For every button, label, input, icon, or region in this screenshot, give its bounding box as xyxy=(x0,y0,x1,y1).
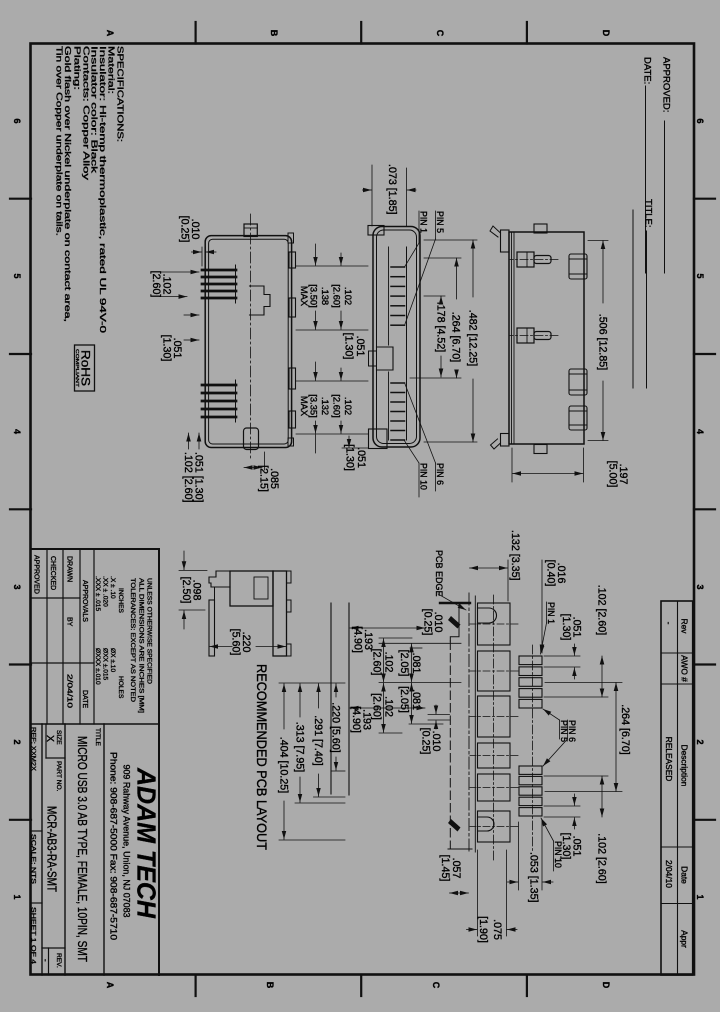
svg-text:PIN 10: PIN 10 xyxy=(419,463,429,490)
svg-text:[0.25]: [0.25] xyxy=(420,728,432,755)
break mark 1 xyxy=(448,616,461,629)
dim .102 [2.60] left xyxy=(544,656,608,697)
svg-text:.220 [5.60]: .220 [5.60] xyxy=(330,702,342,753)
svg-text:[1.30]: [1.30] xyxy=(343,333,355,360)
svg-text:HOLES: HOLES xyxy=(117,676,124,699)
svg-text:TITLE:: TITLE: xyxy=(643,199,654,228)
svg-text:ØXX ±.015: ØXX ±.015 xyxy=(102,648,109,681)
svg-text:APPROVED: APPROVED xyxy=(33,555,40,594)
svg-text:CHECKED: CHECKED xyxy=(49,556,56,590)
side view top tabs xyxy=(287,571,292,583)
dim .220 [5.60] vertical xyxy=(210,646,287,648)
approvals table text xyxy=(33,555,89,708)
svg-text:Description: Description xyxy=(680,745,690,787)
svg-text:2: 2 xyxy=(12,739,22,744)
break mark 2 xyxy=(448,819,461,832)
svg-text:.506 [12.85]: .506 [12.85] xyxy=(597,314,609,370)
svg-text:Plating:: Plating: xyxy=(73,46,82,90)
top view left post xyxy=(244,224,257,237)
svg-text:-: - xyxy=(664,622,674,625)
top view body xyxy=(205,224,295,450)
dim .193 [4.90] left xyxy=(350,627,425,629)
dim .075 [1.90] xyxy=(467,850,518,936)
svg-text:ADAM TECH: ADAM TECH xyxy=(132,767,162,919)
svg-text:Gold flash over Nickel underpl: Gold flash over Nickel underplate on con… xyxy=(63,46,72,322)
svg-text:[4.90]: [4.90] xyxy=(350,706,362,733)
svg-text:.102: .102 xyxy=(343,287,354,305)
svg-text:[1.30]: [1.30] xyxy=(161,335,173,362)
zone ticks bottom edge xyxy=(10,199,31,820)
revision table xyxy=(661,601,693,975)
svg-text:.102: .102 xyxy=(383,652,395,673)
bottom view right leg xyxy=(501,434,510,447)
dim .197 [5.00] xyxy=(512,448,584,482)
dim .081 [2.05] 2 xyxy=(411,683,413,723)
dim .220 [5.60] row xyxy=(335,684,337,771)
svg-text:MAX: MAX xyxy=(299,396,310,417)
svg-text:D: D xyxy=(601,30,611,37)
svg-text:.051: .051 xyxy=(354,336,366,357)
svg-text:4: 4 xyxy=(695,429,705,434)
svg-text:REF: XXM2X: REF: XXM2X xyxy=(30,727,37,772)
bottom view left leg xyxy=(501,230,510,252)
top view corner hooks xyxy=(288,233,294,243)
svg-text:Phone: 908-687-5000 Fax: 908-6: Phone: 908-687-5000 Fax: 908-687-5710 xyxy=(109,752,119,940)
dim .081 [2.05] pair extension lines xyxy=(379,638,461,733)
svg-text:[0.25]: [0.25] xyxy=(179,216,191,243)
svg-text:PCB EDGE: PCB EDGE xyxy=(434,550,444,597)
svg-text:BY: BY xyxy=(66,617,73,627)
svg-text:6: 6 xyxy=(12,118,22,123)
top view center notch xyxy=(250,286,271,315)
revision table headers xyxy=(680,619,690,949)
svg-text:6: 6 xyxy=(695,118,705,123)
dim stack .102 .138 below front view group1 xyxy=(299,284,354,307)
svg-text:Rev: Rev xyxy=(680,619,690,635)
pcb cut line dashed xyxy=(449,641,451,849)
svg-text:.051: .051 xyxy=(355,447,367,468)
zone ticks left edge xyxy=(196,22,527,44)
specifications notes xyxy=(54,46,124,334)
pcb edge left end xyxy=(440,602,470,604)
dim .102 [2.60] stack 1 xyxy=(383,639,385,682)
svg-text:SHEET 1 OF 4: SHEET 1 OF 4 xyxy=(30,907,37,964)
svg-text:[0.40]: [0.40] xyxy=(545,560,557,587)
svg-text:C: C xyxy=(431,982,441,989)
svg-text:[1.90]: [1.90] xyxy=(477,916,489,943)
svg-text:APPROVALS: APPROVALS xyxy=(81,580,88,622)
pin pads group 2 xyxy=(519,766,542,816)
svg-text:SCALE: NTS: SCALE: NTS xyxy=(30,834,37,885)
svg-text:ØXXX ±.010: ØXXX ±.010 xyxy=(94,648,101,685)
svg-text:.XXX ± .015: .XXX ± .015 xyxy=(94,576,101,611)
title underline 2 xyxy=(632,210,634,388)
approved underline xyxy=(664,121,666,273)
svg-text:.132 [3.35]: .132 [3.35] xyxy=(509,530,521,581)
dim .506 [12.85] xyxy=(588,241,608,441)
svg-text:.313 [7.95]: .313 [7.95] xyxy=(294,722,306,773)
svg-text:.482 [12.25]: .482 [12.25] xyxy=(467,310,479,366)
zone ticks top edge xyxy=(694,199,715,820)
bottom view shield tabs xyxy=(569,254,587,279)
svg-text:.138: .138 xyxy=(320,287,331,305)
svg-text:[0.25]: [0.25] xyxy=(422,609,434,636)
top view contact comb 2 xyxy=(202,385,236,417)
stack right extensions xyxy=(279,771,345,840)
front view left leg xyxy=(368,226,384,236)
stack dims common extension xyxy=(279,682,345,684)
svg-text:[2.15]: [2.15] xyxy=(258,465,270,492)
zone ticks right edge xyxy=(196,975,527,996)
svg-text:.073 [1.85]: .073 [1.85] xyxy=(386,164,398,215)
dim .010 [0.25] xyxy=(192,247,217,266)
shield pad vertical centerlines xyxy=(470,624,518,827)
footprint rear lines xyxy=(348,603,350,795)
svg-text:PIN 5: PIN 5 xyxy=(435,211,445,233)
front view right leg xyxy=(369,429,388,449)
shield pad centerline xyxy=(493,595,495,860)
pcb edge phantom line xyxy=(468,593,470,852)
dim .081 [2.05] 1 xyxy=(411,644,413,682)
svg-text:2/04/10: 2/04/10 xyxy=(66,674,73,708)
dim .102 [2.60] right xyxy=(188,433,190,449)
front view shell xyxy=(368,226,420,449)
zone letters left xyxy=(105,30,611,37)
svg-text:[4.90]: [4.90] xyxy=(352,626,364,653)
dim .482 [12.25] xyxy=(424,240,477,442)
svg-text:TITLE: TITLE xyxy=(94,728,101,747)
svg-text:[1.45]: [1.45] xyxy=(439,855,451,882)
svg-text:MAX: MAX xyxy=(299,286,310,307)
svg-text:[2.60]: [2.60] xyxy=(150,271,162,298)
svg-text:3: 3 xyxy=(695,584,705,589)
dim .051 [1.30] bottom xyxy=(184,315,199,340)
svg-text:3: 3 xyxy=(12,584,22,589)
dim .010 [0.25] lower xyxy=(428,705,450,729)
svg-text:.053 [1.35]: .053 [1.35] xyxy=(528,852,540,903)
svg-text:4: 4 xyxy=(12,429,22,434)
svg-text:REV.: REV. xyxy=(55,953,62,968)
svg-text:[1.30]: [1.30] xyxy=(560,833,572,860)
bottom view post 2 xyxy=(517,328,534,343)
top view shield bumps xyxy=(289,252,296,268)
svg-text:ØX ±.10: ØX ±.10 xyxy=(109,648,116,672)
svg-text:[2.05]: [2.05] xyxy=(398,686,410,713)
revision table row xyxy=(664,622,674,889)
svg-text:.081: .081 xyxy=(410,653,422,674)
dim .178 [4.52] xyxy=(424,296,445,377)
svg-text:RELEASED: RELEASED xyxy=(664,737,674,782)
svg-text:Contacts: Copper Alloy: Contacts: Copper Alloy xyxy=(81,46,90,181)
svg-text:[2.50]: [2.50] xyxy=(180,577,192,604)
zone numbers top xyxy=(695,118,705,899)
svg-text:RECOMMENDED PCB LAYOUT: RECOMMENDED PCB LAYOUT xyxy=(254,664,269,850)
svg-text:[2.60]: [2.60] xyxy=(332,394,343,417)
pin pads group 1 xyxy=(519,656,542,708)
svg-text:[5.00]: [5.00] xyxy=(607,461,619,488)
svg-text:-: - xyxy=(41,959,50,962)
front view contact comb 2 xyxy=(391,383,405,440)
svg-text:DATE: DATE xyxy=(81,690,88,708)
bottom view post 1 xyxy=(517,252,534,267)
dim .053 [1.35] xyxy=(508,820,554,890)
svg-text:.264 [6.70]: .264 [6.70] xyxy=(450,312,462,363)
svg-text:2/04/10: 2/04/10 xyxy=(664,860,674,888)
bottom view side latch tabs xyxy=(534,224,547,233)
svg-text:Material:: Material: xyxy=(107,46,116,94)
RoHS compliant box xyxy=(75,345,95,391)
svg-text:A: A xyxy=(105,982,115,989)
svg-text:.264 [6.70]: .264 [6.70] xyxy=(619,704,631,755)
svg-text:.XX ± .020: .XX ± .020 xyxy=(102,576,109,607)
svg-text:[2.60]: [2.60] xyxy=(371,649,383,676)
title block lines xyxy=(31,549,159,975)
top view contact comb 1 xyxy=(202,270,236,298)
svg-text:2: 2 xyxy=(695,739,705,744)
pad row centerline xyxy=(532,645,534,852)
dim .051 [1.30] right xyxy=(544,794,580,829)
svg-text:Date: Date xyxy=(680,866,690,884)
post centerlines xyxy=(510,259,558,261)
svg-text:INCHES: INCHES xyxy=(117,588,124,614)
zone numbers bottom xyxy=(12,118,22,899)
dim .098 [2.50] xyxy=(179,551,207,629)
tolerance notes xyxy=(129,578,153,713)
pad baseline xyxy=(474,596,476,852)
svg-text:AWO #: AWO # xyxy=(680,655,690,682)
front view center notch xyxy=(377,347,394,370)
svg-text:.178 [4.52]: .178 [4.52] xyxy=(435,302,447,353)
top view right post xyxy=(244,428,259,450)
svg-text:PIN 1: PIN 1 xyxy=(546,602,556,624)
svg-text:[5.60]: [5.60] xyxy=(230,629,242,656)
svg-text:5: 5 xyxy=(12,273,22,278)
svg-text:1: 1 xyxy=(695,894,705,899)
dim .051 [1.30] left xyxy=(544,644,580,679)
dim .313 [7.95] row xyxy=(299,684,301,803)
svg-text:.291 [7.40]: .291 [7.40] xyxy=(312,715,324,766)
svg-text:.081: .081 xyxy=(410,689,422,710)
svg-text:[2.60]: [2.60] xyxy=(332,284,343,307)
svg-text:.132: .132 xyxy=(320,397,331,415)
dim .291 [7.40] row xyxy=(318,684,320,797)
anchor notch 2 xyxy=(478,817,495,831)
dim .051 [1.30] right xyxy=(198,433,200,449)
svg-text:.X ± .10: .X ± .10 xyxy=(109,576,116,599)
dim .102 [2.60] right xyxy=(544,776,608,817)
svg-text:.102: .102 xyxy=(383,696,395,717)
svg-text:.075: .075 xyxy=(491,919,503,940)
date underline xyxy=(645,86,647,273)
dim .102 [2.60] stack 2 xyxy=(383,683,385,732)
svg-text:PART NO.: PART NO. xyxy=(55,761,62,792)
svg-text:DATE:: DATE: xyxy=(642,57,653,84)
svg-text:RoHS: RoHS xyxy=(79,350,93,386)
svg-text:APPROVED:: APPROVED: xyxy=(661,57,672,112)
front view contact comb 1 xyxy=(391,267,405,325)
dim .085 [2.15] xyxy=(244,452,265,470)
dim .132 [3.35] pcb xyxy=(470,560,509,601)
svg-text:909 Rahway Avenue, Union, NJ 0: 909 Rahway Avenue, Union, NJ 07083 xyxy=(122,765,132,918)
side view profile xyxy=(209,571,291,656)
top view centerline xyxy=(250,214,252,459)
svg-text:.102 [2.60]: .102 [2.60] xyxy=(182,452,194,503)
dim .057 [1.45] xyxy=(450,892,469,894)
svg-text:PIN 6: PIN 6 xyxy=(435,463,445,485)
anchor notch 1 xyxy=(478,608,497,623)
svg-text:ALL DIMENSIONS ARE INCHES [MM]: ALL DIMENSIONS ARE INCHES [MM] xyxy=(138,578,145,713)
svg-text:X: X xyxy=(44,735,56,742)
dim stack .102 .132 below front view group2 xyxy=(299,394,354,417)
svg-text:D: D xyxy=(601,982,611,989)
svg-text:.102 [2.60]: .102 [2.60] xyxy=(596,585,608,636)
svg-text:[1.30]: [1.30] xyxy=(560,614,572,641)
svg-text:MCR-AB3-RA-SMT: MCR-AB3-RA-SMT xyxy=(45,806,59,892)
svg-text:SPECIFICATIONS:: SPECIFICATIONS: xyxy=(116,46,125,142)
svg-text:B: B xyxy=(269,30,279,37)
svg-text:PIN 6: PIN 6 xyxy=(567,720,577,742)
svg-text:C: C xyxy=(435,30,445,37)
svg-text:.404 [10.25]: .404 [10.25] xyxy=(278,737,290,793)
title underline 1 xyxy=(646,231,648,388)
dim .264 [6.70] xyxy=(410,258,461,378)
svg-text:A: A xyxy=(105,30,115,37)
dim .073 [1.85] xyxy=(363,165,417,226)
zone letters right xyxy=(105,982,611,989)
svg-text:5: 5 xyxy=(695,273,705,278)
svg-text:COMPLIANT: COMPLIANT xyxy=(74,349,80,387)
svg-text:B: B xyxy=(265,982,275,989)
svg-text:MICRO USB 3.0 AB TYPE, FEMALE,: MICRO USB 3.0 AB TYPE, FEMALE, 10PIN, SM… xyxy=(75,736,90,962)
svg-text:1: 1 xyxy=(12,894,22,899)
svg-text:.102 [2.60]: .102 [2.60] xyxy=(596,833,608,884)
svg-text:.102: .102 xyxy=(343,397,354,415)
svg-text:Appr: Appr xyxy=(680,930,690,948)
bottom view body xyxy=(490,224,587,454)
dim .193 [4.90] right xyxy=(350,707,425,709)
svg-text:Tin over Copper underplate on: Tin over Copper underplate on tails. xyxy=(54,46,63,236)
svg-text:[2.05]: [2.05] xyxy=(398,650,410,677)
pcb edge right end xyxy=(448,848,472,850)
dim .404 [10.25] row xyxy=(283,684,285,840)
dim .264 [6.70] pcb xyxy=(545,683,622,792)
svg-text:UNLESS OTHERWISE SPECIFIED: UNLESS OTHERWISE SPECIFIED xyxy=(146,578,153,684)
svg-text:TOLERANCES: EXCEPT AS NOTED: TOLERANCES: EXCEPT AS NOTED xyxy=(129,578,136,702)
shield pads row xyxy=(478,603,511,842)
svg-text:PIN 1: PIN 1 xyxy=(419,211,429,233)
svg-text:DRAWN: DRAWN xyxy=(66,556,73,582)
dim .102 [2.60] bottom-left xyxy=(160,272,199,297)
